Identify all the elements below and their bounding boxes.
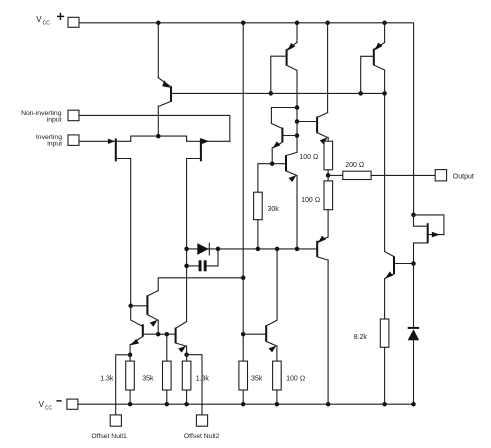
transistor Q2 (input, right) [158,136,230,321]
wire mirror bias line y=93.4 [171,92,385,94]
svg-text:V: V [36,15,42,24]
transistor Q4 (PNP current mirror, center) [271,23,297,153]
resistor R5 100 ohm [273,361,306,404]
transistor Q7 (output NPN upper) [297,23,328,145]
node Q14 emitter / R3 / offset [184,352,189,357]
node mirror base at R2 [165,332,170,337]
diode D1 [197,243,209,255]
node base line at cap branch [216,247,221,252]
node Q10/Q11 base line [411,261,416,266]
transistor Q12 (mirror helper NPN) [131,291,159,335]
capacitor C1 [187,249,218,271]
resistor R9 200 ohm [328,162,371,180]
node Q13 emitter / R1 / offset [128,353,133,358]
node rail R5 [275,402,280,407]
node bias line at Q5 base [358,91,363,96]
wire Q12 collector line y=277.8 [158,278,243,291]
transistor Q3 (PNP current mirror, left) [158,23,171,136]
node bias line at Q4 base [269,91,274,96]
svg-text:CC: CC [43,20,51,26]
node base line at Q15 collector [275,247,280,252]
resistor R6 30k [254,164,280,249]
node rail R10 [382,402,387,407]
transistor Q10 (diode-connected, output clamp) [411,213,444,264]
wire inverting input [79,140,131,142]
svg-text:8.2k: 8.2k [354,334,368,341]
wire R4 column vertical [242,23,244,361]
transistor Q6 (center NPN) [271,108,297,164]
svg-text:input: input [47,116,62,123]
VCC+ terminal [36,13,79,27]
svg-text:Offset Null1: Offset Null1 [91,433,127,440]
node top rail at Q4 [295,21,300,26]
node rail R1 [128,402,133,407]
wire VCC+ top rail [79,23,414,215]
Offset Null1 terminal [91,415,127,440]
node R4 column at y=277.8 [241,276,246,281]
node bias line at Q5 collector [382,91,387,96]
diode D2 [408,264,420,405]
node base line at Q8 emitter [295,247,300,252]
node mirror base at Q12 emitter [156,332,161,337]
node rail R2 [165,402,170,407]
wire base line y=248.9 [187,248,318,250]
resistor R7 100 ohm upper [299,141,332,175]
node Q4 collector column lower [295,133,300,138]
resistor R10 8.2k [354,319,389,404]
svg-text:30k: 30k [268,206,280,213]
resistor R4 35k [239,361,263,404]
resistor R1 1.3k [100,355,134,404]
node base line at 30k [256,247,261,252]
svg-text:100 Ω: 100 Ω [299,154,318,161]
svg-text:35k: 35k [251,375,263,382]
svg-text:1.3k: 1.3k [100,375,114,382]
transistor Q9 (output PNP lower) [317,236,328,405]
transistor Q8 (center NPN lower) [272,152,297,249]
node Q13 collector / Q12 base [128,304,133,309]
transistor Q15 (NPN at 100 ohm) [243,249,277,361]
node capacitor left [184,264,189,269]
node base line left [184,247,189,252]
Inverting input terminal [36,134,79,148]
node top rail at Q7 [325,21,330,26]
transistor Q1 (input, left) [108,136,158,306]
svg-text:Offset Null2: Offset Null2 [184,433,220,440]
node Q4 collector column upper [295,105,300,110]
svg-text:35k: 35k [142,375,154,382]
node rail D2 [411,402,416,407]
svg-text:input: input [47,141,62,148]
svg-text:100 Ω: 100 Ω [286,375,305,382]
Non-inverting input terminal [21,110,79,124]
node R4 column at y=334.2 [241,332,246,337]
resistor R2 35k [142,334,171,404]
wire offset null 1 [116,355,130,415]
svg-text:Output: Output [453,174,474,181]
resistor R3 1.3k [182,355,209,405]
node Q6 emitter / Q8 base [270,161,275,166]
node top rail at Q3 [156,21,161,26]
node output network [326,173,331,178]
node top rail at Q5 [382,21,387,26]
node rail R3 [184,402,189,407]
svg-text:CC: CC [45,405,53,411]
svg-text:200 Ω: 200 Ω [345,162,364,169]
transistor Q13 (mirror NPN left) [130,306,143,355]
VCC- terminal [39,399,78,411]
transistor Q14 (mirror NPN right) [176,322,187,355]
node rail R4 [241,402,246,407]
wire mirror base line y=334.2 [143,333,176,335]
wire non-inverting input [79,115,230,141]
node rail Q9 collector [326,402,331,407]
node Q1/Q2 top junction [156,134,161,139]
Offset Null2 terminal [184,415,220,440]
wire to output [371,174,435,176]
svg-text:1.3k: 1.3k [196,375,210,382]
node top rail at R4 column [241,21,246,26]
wire offset null 2 [187,355,202,415]
resistor R8 100 ohm lower [301,175,333,237]
wire VCC- bottom rail [78,403,414,405]
Output terminal [435,170,474,181]
svg-text:100 Ω: 100 Ω [301,197,320,204]
transistor Q11 (NPN at 8.2k) [385,252,414,320]
node Q4 collector column mid [295,119,300,124]
svg-text:V: V [39,400,45,409]
transistor Q5 (PNP current mirror, right) [361,23,385,252]
